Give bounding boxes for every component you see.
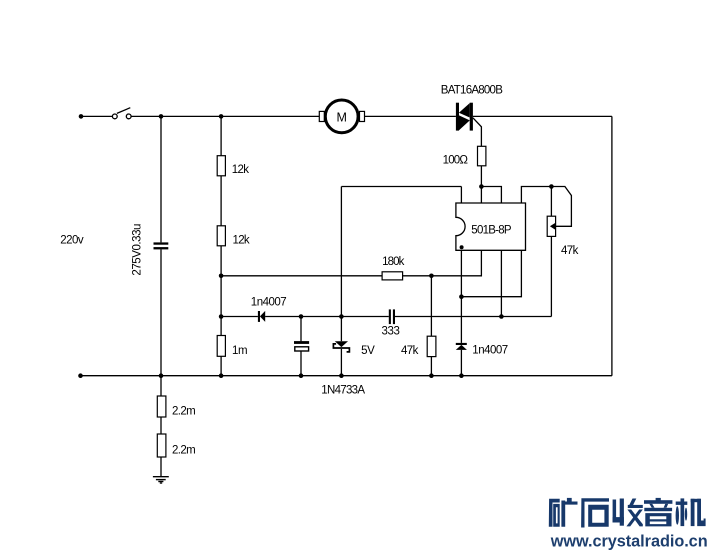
logo char yin — [644, 498, 672, 526]
resistor 180k — [382, 272, 403, 280]
logo char shi — [581, 498, 609, 527]
wire IC pin b1 to diode — [460, 250, 462, 343]
node 180k right — [429, 274, 434, 279]
svg-text:47k: 47k — [561, 245, 579, 257]
wire bottom rail — [81, 375, 612, 377]
wire pot to node y316 — [501, 316, 551, 318]
potentiometer 47k — [547, 216, 556, 236]
svg-text:5V: 5V — [361, 345, 375, 357]
capacitor 275V0.33u — [154, 242, 169, 249]
node x221 top — [219, 114, 224, 119]
ground — [153, 477, 169, 483]
wire IC pin b3 — [500, 250, 502, 316]
svg-text:BAT16A800B: BAT16A800B — [441, 85, 503, 97]
capacitor 333 — [389, 309, 395, 324]
svg-text:275V0.33u: 275V0.33u — [132, 224, 144, 276]
wire triac to top-right corner — [473, 115, 612, 117]
svg-text:1N4733A: 1N4733A — [321, 385, 365, 397]
node rail 47k — [429, 373, 434, 378]
wire 180k rail left — [221, 275, 382, 277]
wire 180k rail right to IC pin b2 — [403, 250, 482, 275]
wire ecap top — [300, 317, 302, 342]
node terminal left top — [79, 114, 84, 119]
wire x161 rail to R 2.2m — [160, 376, 162, 396]
zener 1N4733A 5V — [333, 341, 349, 352]
svg-text:220v: 220v — [60, 234, 84, 246]
wire top rail left to switch — [81, 115, 112, 117]
capacitor electrolytic — [294, 341, 309, 351]
resistor 100ohm — [478, 146, 486, 166]
wire node row y186 left segment — [341, 186, 461, 188]
resistor 2.2m upper — [157, 396, 166, 417]
wire 100ohm to node — [480, 166, 482, 203]
svg-text:180k: 180k — [382, 256, 404, 268]
motor M — [319, 100, 364, 133]
resistor 47k lower — [427, 336, 436, 356]
node terminal left bottom — [78, 373, 83, 378]
wire pot bottom — [550, 236, 552, 316]
svg-text:2.2m: 2.2m — [172, 445, 195, 457]
node pin b4 join — [459, 294, 464, 299]
wire vertical x221 top to 12k — [220, 116, 222, 155]
wire between 2.2m resistors — [160, 417, 162, 434]
triac BAT16A800B — [456, 103, 473, 131]
svg-text:1n4007: 1n4007 — [251, 296, 286, 308]
svg-text:333: 333 — [382, 326, 400, 338]
node rail x161 — [159, 373, 164, 378]
node y316 zener — [339, 314, 344, 319]
wire pot top — [550, 187, 552, 217]
wire 47k from 180k node — [430, 276, 432, 336]
wire 333 cap to pin b3 node — [395, 316, 501, 318]
wire pot wiper loop — [551, 187, 571, 227]
IC U1 501B-8P — [456, 203, 526, 250]
logo char ji — [676, 498, 706, 526]
wire 47k to rail — [430, 357, 432, 376]
wire 12k to 1m node — [220, 246, 222, 336]
watermark logo — [549, 498, 706, 528]
wire 1m to bottom rail — [220, 356, 222, 375]
wire node to IC pin top3 — [481, 187, 501, 204]
diode 1n4007 horizontal — [258, 311, 265, 322]
node x161 top — [159, 114, 164, 119]
node pot top — [549, 184, 554, 189]
logo char shou — [613, 499, 643, 527]
node y316 ecap — [299, 314, 304, 319]
resistor 1m — [217, 336, 225, 357]
wire between 12k resistors — [220, 176, 222, 226]
logo char kuang — [549, 498, 578, 527]
wire vertical x161 top to cap — [160, 116, 162, 242]
svg-text:www.crystalradio.cn: www.crystalradio.cn — [550, 533, 708, 551]
node rail x221 — [219, 373, 224, 378]
node 180k left — [219, 274, 224, 279]
wire vertical x161 cap to bottom rail — [160, 249, 162, 375]
wire motor to triac — [365, 115, 456, 117]
wire zener top — [340, 317, 342, 342]
wire IC pin b4 jog — [461, 250, 521, 296]
svg-text:501B-8P: 501B-8P — [471, 225, 512, 237]
node rail diode — [459, 373, 464, 378]
node rail ecap — [299, 373, 304, 378]
wire zener bottom — [340, 349, 342, 376]
svg-text:1n4007: 1n4007 — [472, 345, 507, 357]
wire diode to ecap node — [265, 316, 341, 318]
resistor 12k lower — [217, 226, 225, 246]
svg-text:2.2m: 2.2m — [172, 405, 195, 417]
wire 2.2m to ground — [160, 457, 162, 477]
resistor 2.2m lower — [157, 434, 166, 457]
switch S1 — [112, 108, 131, 119]
wire zener node to 333 cap — [341, 316, 388, 318]
svg-text:100Ω: 100Ω — [443, 155, 469, 167]
svg-text:M: M — [336, 110, 346, 124]
wire gate of triac — [473, 118, 482, 147]
wire IC pin top1 — [460, 187, 462, 204]
svg-text:1m: 1m — [232, 345, 247, 357]
diode 1n4007 vertical — [456, 343, 467, 350]
wire IC pin top4 to pot node — [521, 187, 551, 204]
wire ecap bottom — [300, 352, 302, 376]
svg-text:12k: 12k — [233, 235, 250, 247]
svg-text:12k: 12k — [232, 164, 249, 176]
resistor 12k upper — [217, 156, 225, 176]
wire switch to motor — [131, 115, 319, 117]
node rail zener — [339, 373, 344, 378]
wire diode to rail — [460, 350, 462, 376]
wire y316 node to diode1n4007h — [221, 316, 258, 318]
wire right rail — [611, 116, 613, 375]
svg-text:47k: 47k — [401, 345, 419, 357]
node 100ohm-IC — [479, 184, 484, 189]
node y316 pin b3 — [499, 314, 504, 319]
node y316 x221 — [219, 314, 224, 319]
wire x341 vertical node to zener — [340, 187, 342, 317]
